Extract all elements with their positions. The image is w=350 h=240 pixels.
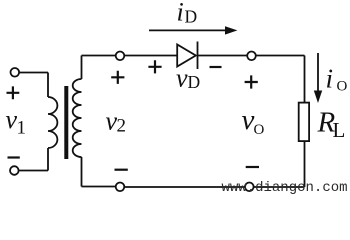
svg-text:L: L <box>333 118 346 142</box>
svg-text:1: 1 <box>17 118 27 139</box>
svg-text:v: v <box>176 64 188 93</box>
svg-text:i: i <box>177 0 184 27</box>
svg-text:O: O <box>254 122 265 138</box>
svg-text:i: i <box>326 64 334 94</box>
svg-text:O: O <box>337 79 348 95</box>
svg-text:D: D <box>188 72 201 92</box>
svg-text:D: D <box>185 7 198 27</box>
svg-text:2: 2 <box>117 116 127 137</box>
svg-text:www.diangon.com: www.diangon.com <box>222 180 348 196</box>
